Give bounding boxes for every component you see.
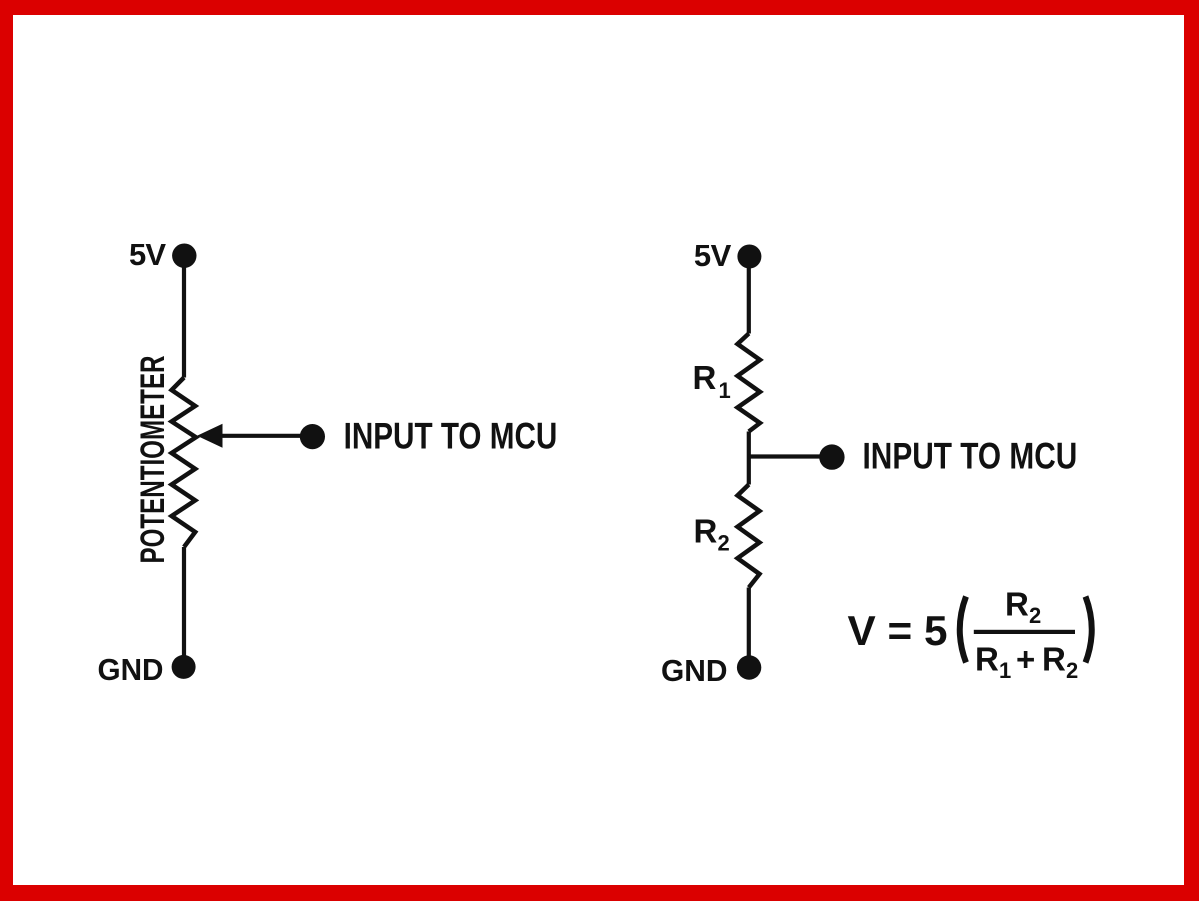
svg-text:R: R (693, 359, 717, 396)
wire: right 5V down to R1 (747, 257, 751, 334)
svg-text:INPUT TO MCU: INPUT TO MCU (344, 416, 558, 457)
potentiometer wiper arrow shaft (218, 434, 312, 438)
svg-text:2: 2 (718, 531, 730, 556)
svg-text:R: R (1042, 640, 1066, 677)
node 5V right: terminal dot (737, 245, 761, 269)
wire: R2 bottom to right GND (747, 588, 751, 668)
potentiometer wiper arrowhead (197, 424, 223, 448)
wire: junction to right INPUT TO MCU dot (749, 454, 832, 458)
svg-text:5V: 5V (694, 238, 732, 273)
node INPUT TO MCU right: dot (819, 444, 844, 469)
red page frame (0, 0, 1199, 15)
node 5V left: terminal dot (172, 244, 196, 268)
formula right parenthesis (1086, 597, 1092, 663)
wire: R1 bottom to R2 top (junction segment) (747, 432, 751, 485)
svg-text:1: 1 (719, 378, 731, 403)
node GND right: terminal dot (737, 655, 761, 679)
resistor R2 zigzag (738, 485, 760, 588)
svg-text:GND: GND (98, 652, 164, 687)
wire: potentiometer bottom to left GND (182, 547, 186, 667)
svg-text:R: R (1005, 585, 1029, 622)
svg-text:1: 1 (999, 658, 1011, 683)
svg-text:POTENTIOMETER: POTENTIOMETER (134, 356, 172, 564)
resistor R1 zigzag (738, 334, 761, 432)
svg-text:2: 2 (1066, 658, 1078, 683)
potentiometer resistive element (zigzag) (172, 378, 196, 548)
formula left parenthesis (960, 597, 966, 663)
wire: left 5V to potentiometer top (182, 256, 186, 378)
node INPUT TO MCU left: dot (300, 424, 325, 449)
svg-text:INPUT TO MCU: INPUT TO MCU (863, 436, 1078, 477)
svg-text:GND: GND (661, 653, 728, 688)
svg-text:V = 5: V = 5 (848, 607, 948, 654)
svg-text:+: + (1016, 640, 1035, 677)
svg-text:2: 2 (1029, 603, 1041, 628)
formula fraction bar (974, 630, 1075, 634)
svg-text:5V: 5V (129, 237, 166, 272)
node GND left: terminal dot (172, 655, 196, 679)
svg-text:R: R (975, 640, 999, 677)
svg-text:R: R (694, 513, 718, 550)
